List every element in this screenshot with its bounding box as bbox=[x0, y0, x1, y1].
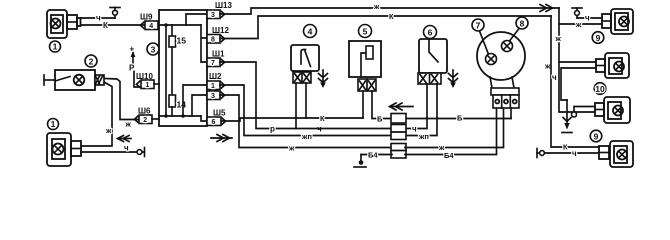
resistor 14 bbox=[169, 95, 176, 116]
svg-text:ж: ж bbox=[125, 120, 132, 129]
wire from plafond down to lower lamp bbox=[81, 82, 112, 146]
svg-text:Ш6: Ш6 bbox=[138, 107, 151, 116]
connector Ш2 pin 3 bbox=[207, 91, 220, 100]
svg-text:Б: Б bbox=[377, 115, 383, 124]
svg-text:6: 6 bbox=[428, 27, 433, 37]
svg-text:4: 4 bbox=[308, 26, 313, 36]
body ground point bbox=[354, 155, 366, 168]
svg-text:Ш2: Ш2 bbox=[209, 72, 222, 81]
pin connector for Ч of lamp 9 top bbox=[572, 8, 582, 18]
lamp 10 (upper) bbox=[596, 53, 629, 78]
svg-text:ж: ж bbox=[373, 2, 380, 11]
svg-text:1: 1 bbox=[51, 119, 56, 129]
SECTION: right bbox=[537, 8, 633, 167]
socket bracket Ш13 pin 3 bbox=[221, 11, 224, 17]
svg-text:ч: ч bbox=[572, 149, 577, 158]
wire from lamp 10 lower to pin connector bbox=[574, 107, 595, 113]
svg-text:10: 10 bbox=[595, 84, 605, 94]
wire К bus from Ш12 bbox=[220, 16, 551, 39]
svg-text:2: 2 bbox=[89, 56, 94, 66]
ground symbol near U4 bbox=[319, 70, 328, 88]
wire Ж row right segment to lamps 7/8 bbox=[405, 108, 504, 148]
svg-text:5: 5 bbox=[363, 26, 368, 36]
svg-text:Ш12: Ш12 bbox=[212, 26, 229, 35]
circled 10 bbox=[594, 83, 606, 95]
socket bracket Ш5 pin 6 bbox=[222, 118, 225, 124]
svg-text:+: + bbox=[130, 45, 135, 54]
SECTION: left lamps bbox=[44, 8, 145, 167]
svg-text:жп: жп bbox=[418, 132, 429, 141]
socket bracket Ш6 pin 2 bbox=[134, 116, 137, 122]
svg-text:ч: ч bbox=[124, 144, 129, 153]
connector Ш13 pin 3 bbox=[207, 10, 220, 19]
svg-text:ч: ч bbox=[585, 14, 590, 23]
svg-text:ч: ч bbox=[552, 73, 557, 82]
svg-text:8: 8 bbox=[520, 18, 525, 28]
U4 pin wires bbox=[295, 83, 297, 129]
circled 3 bbox=[147, 43, 159, 55]
wire Б from U5 down to row bbox=[372, 91, 511, 119]
svg-text:К: К bbox=[103, 21, 108, 30]
circled 2 bbox=[85, 55, 97, 67]
socket bracket Ш2 pin 1 bbox=[221, 82, 224, 88]
connector Ш12 pin 8 bbox=[207, 35, 220, 44]
ground symbol near U6 bbox=[449, 70, 458, 88]
svg-text:7: 7 bbox=[476, 20, 481, 30]
lamp inside (8) bbox=[502, 41, 513, 52]
lamp 10 (lower) bbox=[595, 97, 630, 123]
wire Ч row to inline connector bbox=[296, 128, 392, 130]
double chevron on Ж bus bbox=[540, 5, 553, 12]
svg-text:ж: ж bbox=[575, 20, 582, 29]
block internal: link to Ш5 bbox=[201, 116, 207, 121]
socket bracket Ш1 pin 7 bbox=[221, 59, 224, 65]
wire Ж row from Ш2 pin 3 bbox=[220, 95, 392, 148]
svg-text:4: 4 bbox=[149, 23, 153, 30]
inline connector 1 (Б row) bbox=[391, 114, 406, 124]
wire Ч from bottom lamp to pin connector bbox=[81, 151, 137, 153]
wire Ж top bus from Ш13 bbox=[220, 8, 559, 14]
inline connector 3 (Ж / БЧ rows) bbox=[391, 144, 406, 159]
svg-text:Ш9: Ш9 bbox=[140, 13, 153, 22]
block internal: links to Ш2 pins bbox=[183, 85, 207, 116]
wire Б up to U7/U8 bbox=[510, 108, 512, 119]
svg-text:1: 1 bbox=[211, 83, 215, 90]
circled 9 (bottom) bbox=[590, 130, 602, 142]
ground symbol right column bbox=[562, 100, 572, 133]
connector Ш9 pin 4 bbox=[145, 21, 158, 30]
single-pin connector (right mid) bbox=[572, 112, 577, 117]
socket bracket Ш9 pin 4 bbox=[140, 22, 143, 28]
wire Ж branch to lamp 9 top bbox=[559, 23, 602, 25]
connector Ш6 pin 2 bbox=[139, 115, 159, 124]
wire Ж vertical bus right bbox=[559, 8, 595, 112]
U6 pin wires bbox=[404, 84, 427, 129]
wire Ч from lamp 10 to body ground bbox=[561, 68, 596, 100]
svg-text:Ш5: Ш5 bbox=[213, 109, 226, 118]
svg-text:2: 2 bbox=[143, 117, 147, 124]
wire from plafond to Ш6 (yellow) bbox=[104, 79, 139, 120]
wire Ч from lamp 1 to pin connector bbox=[81, 17, 116, 19]
lamp 1 (bottom-left clearance lamp) bbox=[47, 133, 81, 166]
svg-text:Б: Б bbox=[457, 114, 463, 123]
connector Ш5 pin 6 bbox=[207, 117, 221, 126]
resistor 15 bbox=[169, 25, 176, 95]
continuation arrow below Ш5 bbox=[211, 135, 232, 142]
instrument lamps U7/U8 housing circle bbox=[472, 17, 528, 80]
wire Ч to lamp 9 bottom bbox=[544, 152, 599, 154]
SECTION: middle bbox=[220, 2, 559, 167]
wire К from lamp 1 to Ш9 bbox=[81, 24, 146, 26]
block internal: top bus with junction bbox=[159, 24, 201, 26]
connector Ш2 pin 1 bbox=[207, 81, 220, 90]
socket bracket Ш2 pin 3 bbox=[221, 92, 224, 98]
svg-text:р: р bbox=[270, 125, 275, 134]
block internal: link to Ш13 bbox=[186, 14, 207, 25]
lamp inside (7) bbox=[486, 54, 497, 65]
fuse/relay block U3 bbox=[159, 10, 207, 126]
inline connector 2 (Ч / ЖП rows) bbox=[391, 125, 406, 140]
circled 9 (top) bbox=[592, 32, 604, 44]
circled 1 (bottom) bbox=[48, 119, 59, 130]
switch U4 (door jamb switch) bbox=[291, 25, 319, 72]
svg-text:ч: ч bbox=[412, 125, 417, 134]
svg-text:Б4: Б4 bbox=[444, 151, 454, 160]
svg-text:ж: ж bbox=[105, 126, 112, 135]
connector Ш10 pin 1 bbox=[141, 80, 159, 89]
plus/arrow Р feed symbol bbox=[129, 45, 135, 73]
connector of U7/U8 bbox=[490, 77, 519, 108]
svg-text:3: 3 bbox=[211, 12, 215, 19]
interior lamp U2 (plafond with switch) bbox=[44, 70, 104, 90]
svg-text:6: 6 bbox=[212, 119, 216, 126]
socket bracket Ш10 pin 1 bbox=[136, 81, 139, 87]
svg-text:К: К bbox=[563, 143, 568, 152]
svg-text:ж: ж bbox=[288, 144, 295, 153]
lamp 9 (license plate, top) bbox=[602, 9, 633, 34]
switch U6 (door jamb switch) bbox=[419, 26, 447, 74]
wire БЧ row bbox=[361, 108, 497, 155]
wire Р from Ш1 down to row bbox=[220, 62, 296, 129]
hatched connector of U4 bbox=[293, 72, 311, 83]
wire ЖП from Ш2 pin 1 bbox=[220, 85, 392, 136]
svg-text:ж: ж bbox=[544, 62, 551, 71]
svg-text:Б4: Б4 bbox=[368, 151, 378, 160]
socket bracket Ш12 pin 8 bbox=[221, 36, 224, 42]
hatched connector of U6 bbox=[418, 73, 441, 84]
cigarette lighter U5 bbox=[349, 25, 381, 78]
svg-text:Ш1: Ш1 bbox=[212, 50, 225, 59]
single-pin connector (top-left) bbox=[110, 8, 120, 19]
svg-text:15: 15 bbox=[177, 36, 187, 46]
svg-text:ч: ч bbox=[96, 14, 101, 23]
SECTION: block bbox=[129, 1, 232, 142]
connector Ш1 pin 7 bbox=[207, 58, 220, 67]
block internal: bottom bus bbox=[159, 115, 201, 117]
svg-text:9: 9 bbox=[596, 33, 601, 43]
svg-text:1: 1 bbox=[53, 42, 58, 52]
svg-text:8: 8 bbox=[211, 37, 215, 44]
block internal: left vertical bbox=[165, 25, 167, 116]
svg-text:ж: ж bbox=[555, 34, 562, 43]
svg-text:3: 3 bbox=[211, 93, 215, 100]
svg-text:7: 7 bbox=[211, 60, 215, 67]
lamp 9 (license plate, bottom) bbox=[599, 141, 633, 167]
svg-text:14: 14 bbox=[177, 100, 187, 110]
block internal: right vertical to Ш12/Ш1 bbox=[201, 25, 207, 62]
svg-text:1: 1 bbox=[146, 82, 150, 89]
continuation arrow (to door switch) bbox=[118, 136, 132, 142]
pin connector for Ч of lamp 9 bottom bbox=[537, 149, 544, 158]
wire Р to Ш10 bbox=[134, 72, 141, 88]
svg-text:3: 3 bbox=[151, 44, 156, 54]
svg-text:К: К bbox=[320, 114, 325, 123]
svg-text:Ш13: Ш13 bbox=[215, 1, 232, 10]
continuation arrow (to plug socket) bbox=[390, 103, 414, 110]
svg-text:9: 9 bbox=[594, 131, 599, 141]
svg-text:жп: жп bbox=[301, 132, 312, 141]
svg-text:К: К bbox=[389, 12, 394, 21]
single-pin connector (bottom-left) bbox=[137, 148, 144, 157]
wire Ч to lamp 9 top bbox=[577, 17, 602, 19]
circled 1 (top) bbox=[50, 41, 61, 52]
wire К row from Ш5 to lighter bbox=[221, 118, 363, 121]
U5 pin wires bbox=[362, 91, 364, 118]
wire Ж branch to lamp 10 bbox=[559, 61, 596, 63]
lamp 1 (top-left clearance lamp) bbox=[47, 10, 81, 38]
wire К vertical bus right bbox=[551, 16, 599, 147]
connector of U5 bbox=[358, 79, 376, 91]
